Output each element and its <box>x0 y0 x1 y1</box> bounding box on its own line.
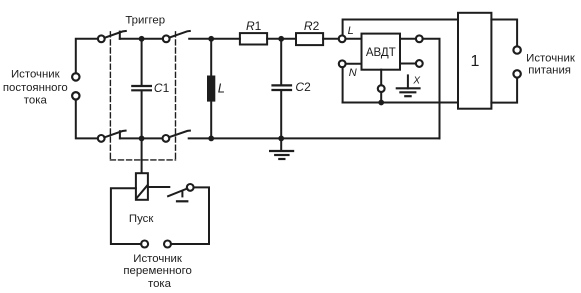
svg-text:C2: C2 <box>295 80 311 94</box>
capacitor C1 bottom lead <box>141 91 143 139</box>
svg-text:Источник: Источник <box>11 69 61 81</box>
capacitor C2 bottom lead <box>280 91 282 139</box>
label N terminal <box>349 67 357 79</box>
label 1 <box>471 53 480 70</box>
relay coil diagonal <box>136 185 147 198</box>
label R2 <box>304 19 320 33</box>
switch SA2 lever <box>169 31 190 38</box>
svg-text:R1: R1 <box>246 19 262 33</box>
switch SA3 contact <box>98 135 105 142</box>
label АВДТ <box>366 47 396 59</box>
label L terminal <box>348 25 354 37</box>
svg-text:переменного: переменного <box>123 265 192 277</box>
wire terminal L to AVDT <box>346 38 362 40</box>
label R1 <box>246 19 262 33</box>
wire bottom rail segment 1 <box>120 137 163 139</box>
wire AVDT right bottom <box>400 63 416 65</box>
label Пуск <box>129 213 154 225</box>
trigger linkage dashed left <box>109 32 111 160</box>
capacitor C1 top lead <box>141 39 143 85</box>
svg-text:АВДТ: АВДТ <box>366 47 396 59</box>
wire relay coil to trigger <box>141 138 143 173</box>
wire N down to neutral bus <box>342 67 344 102</box>
svg-text:L: L <box>348 25 354 37</box>
svg-text:питания: питания <box>528 65 571 77</box>
svg-text:R2: R2 <box>304 19 320 33</box>
wire bottom rail segment 2 <box>189 137 440 139</box>
switch SA3 lever <box>104 131 125 138</box>
wire R2 to terminal L <box>323 38 339 40</box>
label Триггер <box>125 15 165 27</box>
terminal AC b <box>164 241 171 248</box>
switch SA3 fixed post <box>119 131 121 138</box>
svg-text:N: N <box>349 67 357 79</box>
wire AVDT test lead <box>380 70 382 86</box>
capacitor C2 top lead <box>280 39 282 85</box>
ground X stem <box>407 75 409 88</box>
terminal L input <box>339 35 346 42</box>
label Источник переменного тока <box>123 253 192 290</box>
relay coil K1 <box>136 173 148 200</box>
resistor R2 <box>296 33 323 45</box>
terminal N input <box>339 60 346 67</box>
terminal AC a <box>141 241 148 248</box>
wire AVDT right top <box>400 38 416 40</box>
box 1 <box>458 13 491 109</box>
terminal DC+ <box>72 73 79 80</box>
capacitor C2 <box>273 85 292 90</box>
node test on neutral bus <box>378 100 384 106</box>
switch SA1 contact <box>98 35 105 42</box>
svg-text:тока: тока <box>148 278 172 290</box>
terminal AVDT out N <box>416 60 423 67</box>
terminal DC- <box>72 92 79 99</box>
svg-text:постоянного: постоянного <box>3 82 68 94</box>
wire relay coil to button <box>148 186 169 188</box>
svg-text:Источник: Источник <box>526 52 576 64</box>
svg-text:C1: C1 <box>154 81 170 95</box>
button SB1 plunger <box>181 191 183 196</box>
wire loop right <box>171 187 209 244</box>
button SB1 cap <box>177 200 187 202</box>
wire DC+ to switch SA1 <box>76 39 98 73</box>
wire R1 to R2 <box>267 38 296 40</box>
wire neutral bus <box>343 102 458 104</box>
label L <box>218 81 225 96</box>
svg-text:Источник: Источник <box>133 253 183 265</box>
inductor L top lead <box>210 39 212 76</box>
svg-text:тока: тока <box>24 95 48 107</box>
capacitor C1 <box>132 86 151 90</box>
terminal supply + <box>513 46 520 53</box>
inductor L <box>207 76 215 102</box>
button SB1 contact <box>187 184 194 191</box>
node C1 top <box>139 36 145 42</box>
terminal supply - <box>513 70 520 77</box>
wire supply return to box 1 <box>491 78 517 103</box>
svg-text:Пуск: Пуск <box>129 213 154 225</box>
switch SA2 contact <box>163 35 170 42</box>
switch SA1 lever <box>104 31 125 38</box>
label Источник питания <box>526 52 576 76</box>
ground main stem <box>280 138 282 151</box>
wire DC- to switch SA3 <box>76 100 98 139</box>
switch SA1 fixed post <box>119 32 121 39</box>
ground main bars <box>270 151 293 159</box>
switch SA4 lever <box>169 131 190 138</box>
svg-text:L: L <box>218 81 225 96</box>
wire terminal N to AVDT <box>346 63 362 65</box>
switch SA4 contact <box>163 135 170 142</box>
wire test to neutral bus <box>380 92 382 103</box>
terminal AVDT out L <box>416 35 423 42</box>
terminal test <box>378 85 385 92</box>
wire AVDT out L to bottom rail <box>423 39 440 139</box>
svg-text:X: X <box>412 75 420 86</box>
node C2 top <box>278 36 284 42</box>
wire box 1 to supply top <box>491 20 517 47</box>
svg-text:Триггер: Триггер <box>125 15 165 27</box>
label C2 <box>295 80 311 94</box>
inductor L bottom lead <box>210 102 212 139</box>
trigger linkage dashed bottom <box>110 159 175 161</box>
label Источник постоянного тока <box>3 69 68 107</box>
wire terminal L up to box 1 <box>343 20 458 36</box>
wire top rail segment 2 <box>189 38 240 40</box>
node C2 bottom <box>278 136 284 142</box>
node L bottom <box>208 136 214 142</box>
breaker U1 АВДТ <box>362 34 401 70</box>
svg-text:1: 1 <box>471 53 480 70</box>
trigger linkage dashed right <box>175 32 177 160</box>
button SB1 lever <box>168 189 187 197</box>
label C1 <box>154 81 170 95</box>
resistor R1 <box>240 33 267 44</box>
label X <box>412 75 420 86</box>
wire loop left <box>111 188 141 244</box>
wire top rail segment 1 <box>120 38 163 40</box>
node L top <box>208 36 214 42</box>
node relay tap <box>139 136 145 142</box>
ground X bars <box>397 88 420 96</box>
